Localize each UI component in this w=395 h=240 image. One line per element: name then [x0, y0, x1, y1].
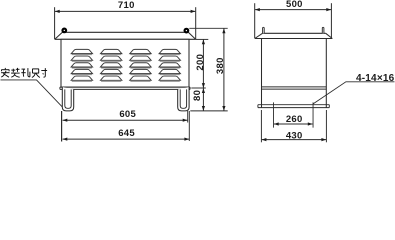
lifting tab right [322, 27, 324, 33]
char Kong [21, 68, 30, 77]
bolt left [63, 29, 67, 33]
svg-text:710: 710 [118, 0, 135, 11]
extension tick at bolt top (for 380) [189, 27, 227, 29]
svg-text:260: 260 [286, 114, 303, 125]
dimension 430 extension line right [325, 110, 327, 142]
top plate (side view) [255, 33, 332, 38]
extension line below right foot (605) [187, 111, 189, 123]
dimension 605 line [63, 119, 188, 122]
svg-text:605: 605 [119, 109, 136, 120]
char An [1, 68, 9, 77]
char Chi [32, 69, 40, 78]
svg-text:80: 80 [192, 90, 203, 101]
mounting slot mark right [312, 102, 314, 127]
dimension 710 extension line left [54, 7, 56, 39]
dimension 200 line [202, 40, 205, 88]
extension tick at body bottom (200/80 junction) [191, 87, 206, 89]
char Cun [41, 68, 47, 77]
dimension 710 extension line right [195, 7, 197, 39]
extension tick at plate bottom (for 200) [196, 38, 209, 40]
svg-text:500: 500 [286, 0, 303, 10]
leader line for 4-14x16 [313, 82, 394, 104]
dimension 80 line [202, 88, 205, 111]
louver column 3 [130, 49, 151, 81]
svg-text:4-14×16: 4-14×16 [356, 73, 395, 84]
dimension 645 line [63, 138, 190, 141]
dimension 500 extension line right [330, 3, 332, 38]
dimension 710 line [55, 10, 196, 13]
dimension 500 extension line left [254, 3, 256, 38]
base flange (side view) [258, 105, 329, 108]
dimension 430 line [262, 138, 327, 141]
leader line for mounting-hole note [1, 80, 63, 107]
mounting slot mark left [273, 102, 275, 127]
note text (mounting hole size CJK glyph strokes) [1, 68, 47, 78]
louver column 2 [100, 49, 121, 81]
svg-text:645: 645 [118, 128, 135, 139]
louver column 1 [71, 49, 92, 81]
dimension 380 line [222, 28, 225, 110]
dimension 260 line [274, 122, 313, 125]
extension line below left foot [61, 111, 63, 142]
body (side view) left edge [261, 39, 263, 108]
body (side view) right edge [325, 39, 327, 108]
svg-text:200: 200 [195, 54, 206, 71]
top plate (front view) [55, 32, 196, 39]
bolt right [185, 29, 189, 33]
louver column 4 [159, 49, 180, 81]
dimension 430 extension line left [260, 110, 262, 142]
body (front view) [61, 39, 189, 87]
right foot bracket [178, 87, 189, 111]
bottom strip plate [60, 87, 190, 89]
char Zhuang [11, 68, 20, 77]
lifting tab left [263, 27, 265, 33]
svg-text:380: 380 [215, 57, 226, 74]
dimension 500 line [255, 8, 331, 11]
left foot bracket [62, 87, 73, 111]
body bottom strip (side view) [262, 87, 327, 89]
svg-text:430: 430 [286, 130, 303, 141]
extension tick at feet bottom (for 80/380) [190, 110, 227, 112]
extension line below right foot (645) [188, 111, 190, 141]
